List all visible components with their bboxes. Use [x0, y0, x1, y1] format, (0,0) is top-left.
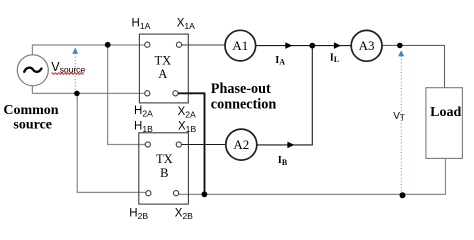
svg-text:IA: IA — [275, 55, 285, 67]
svg-text:B: B — [160, 166, 168, 180]
wire: X1A to ammeter A1 — [182, 44, 225, 46]
terminal H2B — [146, 191, 151, 196]
red squiggle under source — [52, 73, 84, 75]
svg-text:IB: IB — [278, 155, 288, 167]
wire: bottom bus from source to H2A — [32, 86, 144, 94]
wire: bottom return from X2B junction to load — [179, 158, 446, 194]
svg-text:Common: Common — [3, 103, 58, 118]
svg-text:Load: Load — [430, 105, 461, 120]
junction dot: IA+IB summing node — [309, 43, 315, 49]
svg-text:A3: A3 — [359, 38, 375, 53]
wire: vertical drop from top bus to H1B — [108, 45, 146, 145]
wire: X1B to ammeter A2 — [181, 144, 226, 146]
terminal X2A — [173, 91, 178, 96]
junction dot: top bus / H1B tap — [105, 42, 111, 48]
svg-text:A1: A1 — [232, 38, 248, 53]
svg-text:TX: TX — [156, 152, 173, 166]
wire: X2A series link down to X2B junction (thick) — [178, 93, 204, 194]
Vsource arrow (blue dashed) — [74, 54, 76, 92]
wire: A2 output rising to IL junction — [257, 46, 313, 145]
VT arrow (blue dashed) — [400, 56, 402, 192]
svg-text:TX: TX — [154, 53, 171, 67]
terminal X2B — [174, 191, 179, 196]
junction dot: X2B node — [202, 191, 208, 197]
junction dot: bottom bus / H2B tap — [74, 91, 80, 97]
wire: A1 output to A3 with junction — [256, 45, 352, 47]
svg-text:A2: A2 — [233, 137, 249, 152]
transformer TX B box — [139, 133, 189, 204]
svg-text:IL: IL — [330, 53, 339, 65]
wire: vertical drop from bottom bus to H2B — [77, 93, 146, 192]
svg-text:connection: connection — [211, 96, 277, 112]
svg-text:Phase-out: Phase-out — [211, 81, 271, 97]
wire: A3 output to load top — [382, 45, 445, 87]
ammeter A3 — [351, 30, 382, 61]
terminal X1B — [176, 142, 181, 147]
terminal X1A — [176, 42, 181, 47]
arrowhead IB — [287, 142, 294, 149]
arrowhead IL — [334, 42, 341, 49]
terminal H1A — [145, 42, 150, 47]
terminal H2A — [145, 91, 150, 96]
terminal H1B — [145, 142, 150, 147]
common source AC symbol — [17, 55, 48, 86]
load box — [426, 88, 463, 159]
junction dot: VT bottom node — [400, 192, 406, 198]
svg-text:A: A — [158, 67, 167, 81]
ammeter A2 — [226, 129, 257, 160]
junction dot: VT top node — [397, 43, 403, 49]
arrowhead IA — [285, 42, 292, 49]
ammeter A1 — [225, 30, 256, 61]
svg-text:source: source — [13, 118, 52, 133]
wire: top bus from source to H1A — [32, 45, 144, 55]
transformer TX A box — [139, 34, 188, 103]
